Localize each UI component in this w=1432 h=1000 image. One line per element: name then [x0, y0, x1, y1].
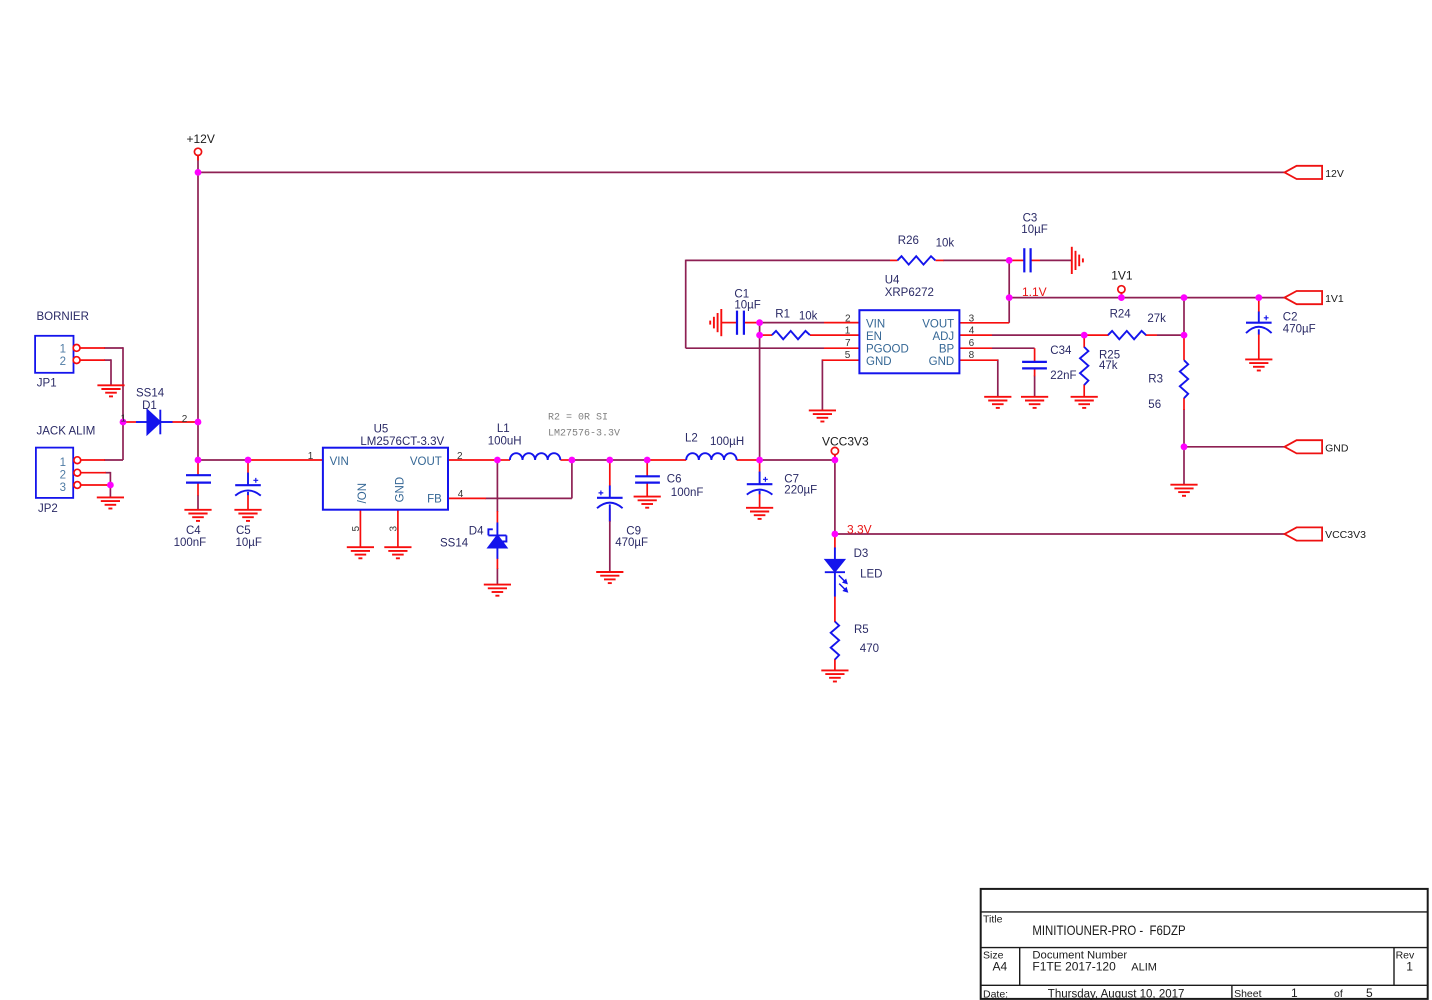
- svg-text:MINITIOUNER-PRO - F6DZP: MINITIOUNER-PRO - F6DZP: [1032, 922, 1185, 938]
- svg-text:+12V: +12V: [187, 132, 215, 146]
- svg-text:Date:: Date:: [983, 988, 1008, 1000]
- svg-text:12V: 12V: [1325, 168, 1344, 180]
- svg-text:1V1: 1V1: [1325, 293, 1344, 305]
- svg-text:4: 4: [458, 489, 464, 500]
- svg-text:GND: GND: [1325, 442, 1349, 454]
- svg-text:47k: 47k: [1099, 360, 1118, 372]
- svg-text:ADJ: ADJ: [932, 331, 954, 343]
- svg-text:1: 1: [845, 326, 851, 337]
- svg-text:470µF: 470µF: [615, 537, 648, 549]
- svg-text:2: 2: [60, 470, 66, 482]
- svg-text:1: 1: [308, 451, 314, 462]
- svg-text:3: 3: [969, 313, 975, 324]
- svg-text:56: 56: [1148, 399, 1161, 411]
- svg-text:Title: Title: [983, 914, 1003, 926]
- svg-text:10k: 10k: [799, 310, 818, 322]
- svg-text:L1: L1: [497, 423, 510, 435]
- svg-text:of: of: [1334, 988, 1343, 1000]
- svg-text:3.3V: 3.3V: [847, 522, 872, 536]
- svg-text:7: 7: [845, 338, 851, 349]
- svg-text:1: 1: [1406, 960, 1413, 974]
- svg-text:JP1: JP1: [37, 377, 57, 389]
- svg-text:LM2576CT-3.3V: LM2576CT-3.3V: [360, 436, 444, 448]
- svg-text:A4: A4: [993, 960, 1008, 974]
- svg-text:470: 470: [860, 643, 879, 655]
- svg-text:2: 2: [182, 414, 188, 425]
- svg-text:Sheet: Sheet: [1234, 988, 1262, 1000]
- svg-text:470µF: 470µF: [1283, 323, 1316, 335]
- svg-text:VIN: VIN: [330, 456, 349, 468]
- svg-text:100nF: 100nF: [174, 537, 207, 549]
- svg-text:FB: FB: [427, 493, 442, 505]
- svg-text:L2: L2: [685, 432, 698, 444]
- svg-text:1: 1: [121, 413, 127, 424]
- svg-text:10µF: 10µF: [236, 537, 262, 549]
- svg-text:SS14: SS14: [136, 387, 165, 399]
- svg-text:BP: BP: [939, 343, 955, 355]
- svg-text:SS14: SS14: [440, 537, 469, 549]
- svg-text:2: 2: [457, 451, 463, 462]
- svg-text:3: 3: [389, 526, 400, 532]
- svg-text:VCC3V3: VCC3V3: [1325, 529, 1366, 541]
- svg-text:GND: GND: [929, 356, 955, 368]
- svg-text:VIN: VIN: [866, 319, 885, 331]
- svg-text:D4: D4: [469, 525, 484, 537]
- svg-text:6: 6: [969, 338, 975, 349]
- svg-text:5: 5: [1366, 986, 1373, 1000]
- svg-text:R3: R3: [1148, 374, 1163, 386]
- svg-text:1V1: 1V1: [1111, 268, 1133, 282]
- svg-text:U4: U4: [885, 274, 900, 286]
- svg-text:2: 2: [60, 356, 66, 368]
- svg-text:1: 1: [1291, 986, 1298, 1000]
- svg-text:C3: C3: [1023, 212, 1038, 224]
- svg-text:D1: D1: [142, 400, 157, 412]
- svg-text:GND: GND: [394, 477, 406, 503]
- svg-text:GND: GND: [866, 356, 892, 368]
- svg-text:2: 2: [845, 313, 851, 324]
- svg-text:BORNIER: BORNIER: [37, 311, 89, 323]
- svg-text:U5: U5: [374, 423, 389, 435]
- svg-text:PGOOD: PGOOD: [866, 343, 909, 355]
- svg-text:8: 8: [969, 350, 975, 361]
- svg-text:100uH: 100uH: [488, 436, 522, 448]
- svg-text:100µH: 100µH: [710, 436, 744, 448]
- svg-text:VOUT: VOUT: [922, 319, 954, 331]
- svg-text:C34: C34: [1050, 345, 1072, 357]
- svg-text:F1TE 2017-120: F1TE 2017-120: [1032, 960, 1116, 974]
- svg-text:5: 5: [351, 526, 362, 532]
- svg-text:VOUT: VOUT: [410, 456, 442, 468]
- svg-text:C6: C6: [667, 473, 682, 485]
- svg-text:27k: 27k: [1147, 313, 1166, 325]
- svg-text:R2 = 0R SI: R2 = 0R SI: [548, 413, 608, 424]
- svg-text:220µF: 220µF: [784, 484, 817, 496]
- svg-text:JP2: JP2: [38, 503, 58, 515]
- svg-text:XRP6272: XRP6272: [885, 287, 934, 299]
- svg-text:EN: EN: [866, 331, 882, 343]
- svg-text:C2: C2: [1283, 312, 1298, 324]
- svg-text:C9: C9: [626, 525, 641, 537]
- svg-text:R26: R26: [898, 235, 919, 247]
- svg-text:5: 5: [845, 350, 851, 361]
- svg-text:4: 4: [969, 326, 975, 337]
- svg-text:JACK ALIM: JACK ALIM: [37, 425, 96, 437]
- svg-text:3: 3: [60, 482, 66, 494]
- svg-text:VCC3V3: VCC3V3: [822, 434, 869, 448]
- svg-text:R5: R5: [854, 624, 869, 636]
- svg-text:1: 1: [60, 457, 66, 469]
- svg-text:1.1V: 1.1V: [1022, 285, 1047, 299]
- svg-text:LED: LED: [860, 568, 882, 580]
- svg-text:10k: 10k: [936, 237, 955, 249]
- svg-text:10µF: 10µF: [1021, 224, 1047, 236]
- svg-text:/ON: /ON: [357, 483, 369, 503]
- svg-text:D3: D3: [854, 548, 869, 560]
- svg-text:Thursday, August 10, 2017: Thursday, August 10, 2017: [1048, 988, 1185, 1000]
- svg-text:1: 1: [60, 343, 66, 355]
- svg-text:R1: R1: [775, 309, 790, 321]
- svg-text:LM27576-3.3V: LM27576-3.3V: [548, 429, 620, 440]
- svg-text:R24: R24: [1110, 308, 1132, 320]
- svg-text:100nF: 100nF: [671, 487, 704, 499]
- svg-text:C5: C5: [236, 525, 251, 537]
- svg-text:ALIM: ALIM: [1131, 962, 1157, 974]
- svg-text:22nF: 22nF: [1050, 370, 1076, 382]
- svg-text:C4: C4: [186, 525, 201, 537]
- svg-text:10µF: 10µF: [734, 299, 760, 311]
